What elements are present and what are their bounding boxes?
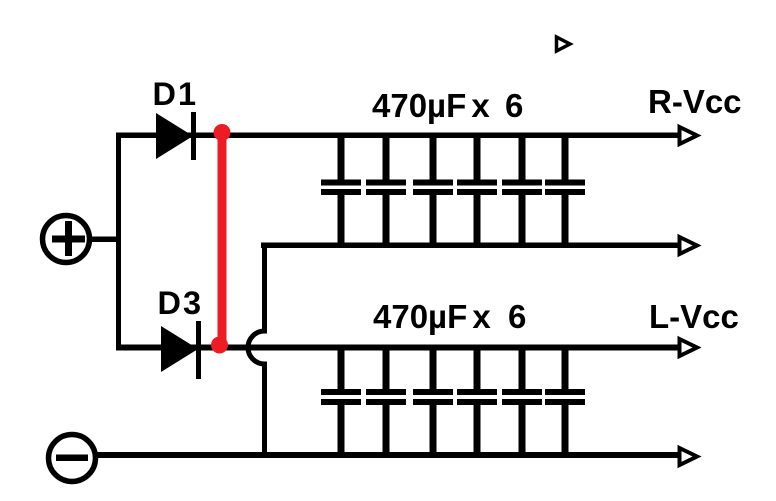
- capacitor bottom C10: [457, 348, 497, 455]
- stray arrow mark top right: [557, 37, 571, 51]
- source - terminal: [49, 435, 96, 482]
- capacitor bottom C12: [545, 348, 585, 455]
- svg-text:D1: D1: [153, 76, 199, 112]
- wire left vertical bus: [116, 133, 121, 350]
- capacitor top C6: [545, 135, 585, 245]
- capacitor bottom C7: [321, 348, 361, 455]
- capacitor bank bottom (C x6): [321, 348, 585, 455]
- diode D3: [161, 321, 201, 379]
- junction node at D3 cathode: [211, 337, 228, 354]
- capacitor top C5: [502, 135, 542, 245]
- svg-text:D3: D3: [158, 285, 204, 321]
- svg-text:470µF x 6: 470µF x 6: [373, 298, 526, 335]
- wire R-Vcc rail: [116, 133, 679, 139]
- terminal arrow L-Vcc: [680, 339, 698, 356]
- diode D1: [156, 112, 196, 160]
- wire from plus source: [90, 237, 120, 243]
- capacitor bottom C8: [366, 348, 406, 455]
- terminal arrow R return: [680, 237, 698, 254]
- svg-text:470µF x 6: 470µF x 6: [372, 87, 523, 124]
- wire vertical with crossover hop: [248, 243, 264, 453]
- wire L-Vcc rail: [116, 345, 679, 351]
- terminal arrow R-Vcc: [680, 127, 698, 144]
- capacitor top C1: [321, 135, 361, 245]
- svg-text:R-Vcc: R-Vcc: [648, 83, 742, 120]
- capacitor top C3: [413, 135, 453, 245]
- capacitor top C2: [366, 135, 406, 245]
- capacitor bank top (C x6): [321, 135, 585, 245]
- svg-text:L-Vcc: L-Vcc: [649, 298, 739, 335]
- source + terminal: [43, 216, 90, 263]
- wire middle rail (R return): [261, 243, 679, 249]
- wire ground rail: [95, 452, 679, 458]
- capacitor bottom C11: [502, 348, 542, 455]
- red wire segment: [218, 131, 227, 345]
- capacitor bottom C9: [413, 348, 453, 455]
- red jumper wire with junction dots: [211, 124, 231, 354]
- capacitor top C4: [457, 135, 497, 245]
- junction node at D1 cathode: [214, 124, 231, 141]
- terminal arrow ground: [680, 448, 698, 465]
